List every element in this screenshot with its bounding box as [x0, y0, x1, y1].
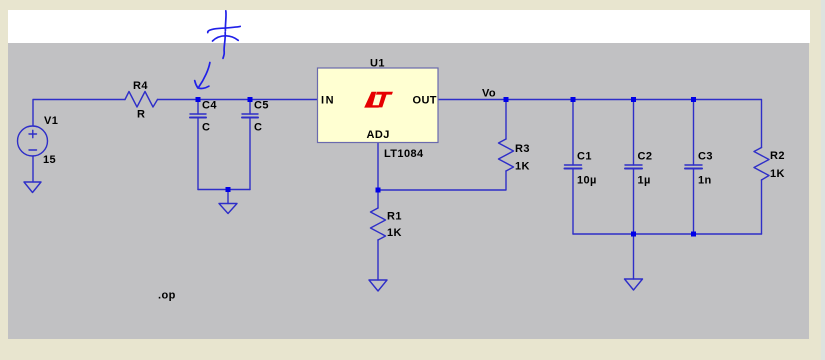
- svg-text:10µ: 10µ: [577, 175, 597, 187]
- capacitor C4: [197, 100, 199, 115]
- wire R1 bottom: [377, 240, 379, 280]
- wire bottom rail C1-C2-C3-R2: [573, 233, 762, 235]
- svg-text:R3: R3: [515, 143, 530, 155]
- node C3 top: [691, 97, 696, 102]
- node C2 bottom: [631, 232, 636, 237]
- svg-text:IN: IN: [321, 95, 335, 107]
- svg-text:OUT: OUT: [413, 95, 437, 107]
- svg-text:C5: C5: [254, 100, 269, 112]
- right edge light strip: [821, 0, 825, 360]
- node Vo: [504, 97, 509, 102]
- node C5 top: [248, 97, 253, 102]
- svg-text:15: 15: [43, 154, 56, 166]
- LT logo right glyph: [376, 92, 393, 108]
- wire R4 to U1 IN: [158, 99, 318, 101]
- svg-text:C3: C3: [698, 151, 713, 163]
- schematic canvas (gray): [8, 43, 809, 339]
- svg-text:1K: 1K: [387, 227, 402, 239]
- node ADJ junction: [376, 188, 381, 193]
- junction node dots: [196, 97, 697, 237]
- sketch arrowhead left barb: [195, 81, 198, 88]
- wire ground stem C2: [633, 234, 635, 279]
- node C3 bottom: [691, 232, 696, 237]
- wire R2 bottom: [761, 180, 763, 234]
- svg-text:V1: V1: [44, 115, 58, 127]
- white toolbar strip: [8, 10, 810, 43]
- svg-text:R4: R4: [133, 80, 148, 92]
- ground (R1): [369, 280, 387, 291]
- ground (V1): [24, 182, 41, 193]
- svg-text:Vo: Vo: [482, 88, 496, 100]
- V1 plus sign: [29, 133, 37, 135]
- wire V1 top to R4: [33, 100, 125, 127]
- wire V1 bottom stem: [32, 156, 34, 182]
- wire U1 ADJ down: [377, 143, 379, 191]
- capacitor C3: [693, 100, 695, 166]
- svg-text:U1: U1: [370, 58, 385, 70]
- capacitor C2: [633, 100, 635, 166]
- LT logo left glyph: [364, 92, 379, 108]
- capacitor C5: [249, 100, 251, 115]
- sketch curved plate: [213, 36, 239, 41]
- sketch bottom lead: [223, 32, 225, 58]
- svg-text:1µ: 1µ: [638, 175, 651, 187]
- svg-text:1K: 1K: [770, 168, 785, 180]
- sketch flat plate: [208, 26, 240, 32]
- wire ADJ rail to R3 bottom: [378, 171, 506, 190]
- node C4 top: [196, 97, 201, 102]
- svg-text:ADJ: ADJ: [367, 129, 390, 141]
- wire U1 OUT to R2 top corner: [438, 100, 762, 148]
- V1 minus sign: [29, 149, 37, 151]
- resistor R3 (zigzag): [499, 139, 514, 171]
- sketch top lead: [224, 11, 227, 31]
- svg-text:R: R: [137, 109, 145, 121]
- svg-text:R1: R1: [387, 211, 402, 223]
- resistor R4 (zigzag): [125, 92, 158, 108]
- svg-text:C: C: [202, 122, 210, 134]
- wire ground stem C4/C5: [227, 190, 229, 204]
- svg-text:LT1084: LT1084: [384, 148, 424, 160]
- svg-text:R2: R2: [770, 150, 785, 162]
- sketch arrowhead right barb: [198, 86, 209, 88]
- wire Vo down to R3: [505, 100, 507, 140]
- node C2 top: [631, 97, 636, 102]
- svg-text:.op: .op: [158, 290, 176, 302]
- svg-text:C1: C1: [577, 151, 592, 163]
- svg-text:1n: 1n: [698, 175, 712, 187]
- sketch arrow shaft: [199, 63, 210, 88]
- op-amp U1 regulator box: [318, 68, 439, 143]
- svg-text:C: C: [254, 122, 262, 134]
- svg-text:1K: 1K: [515, 161, 530, 173]
- capacitor C1: [572, 100, 574, 166]
- node C4/C5 ground: [226, 187, 231, 192]
- resistor R1 (zigzag): [371, 208, 386, 240]
- wire R1 top: [377, 190, 379, 208]
- ground (C4/C5): [219, 204, 237, 214]
- ground (output rail): [625, 279, 643, 290]
- node C1 top: [571, 97, 576, 102]
- hand-drawn annotation: capacitor sketch: [195, 11, 241, 89]
- resistor R2 (zigzag): [754, 148, 769, 181]
- wire C4/C5 bottom rail: [198, 189, 250, 191]
- svg-text:C4: C4: [202, 100, 217, 112]
- svg-text:C2: C2: [638, 151, 653, 163]
- voltage source V1 circle: [18, 126, 48, 156]
